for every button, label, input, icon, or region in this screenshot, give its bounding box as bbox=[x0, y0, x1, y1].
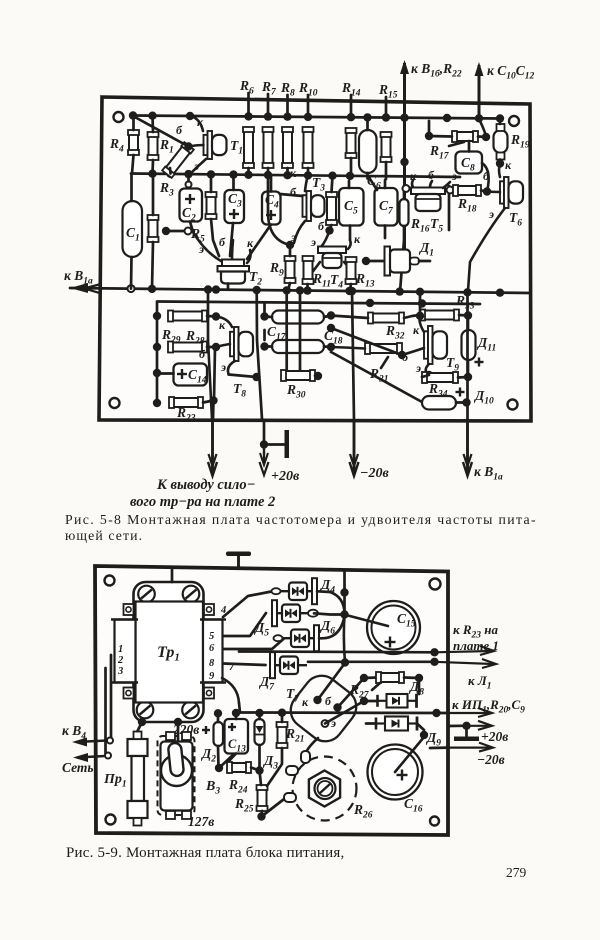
mounting hole top-right bbox=[509, 116, 519, 126]
svg-text:э: э bbox=[198, 242, 204, 256]
diode D1 bbox=[362, 247, 430, 276]
label R34 bbox=[428, 381, 448, 400]
transformer pin numbers left bbox=[117, 644, 124, 677]
transformer Tr1 outer bbox=[134, 582, 204, 722]
svg-text:5: 5 bbox=[209, 631, 214, 642]
label C13 bbox=[228, 737, 246, 755]
label T1 + pins bbox=[176, 115, 243, 173]
transistor T8 bbox=[216, 317, 253, 375]
wire bus3 k IP1 bbox=[240, 709, 448, 718]
transistor T3 bbox=[280, 175, 325, 243]
resistor R15 body bbox=[381, 132, 392, 179]
svg-text:б: б bbox=[402, 350, 409, 364]
mounting hole bottom-right bbox=[508, 400, 518, 410]
label T3 + pins bbox=[290, 166, 325, 244]
label R11 bbox=[312, 271, 331, 290]
wire base column T8 bbox=[214, 348, 215, 400]
label R13 bbox=[355, 271, 375, 290]
diode D2 bbox=[202, 709, 223, 768]
svg-text:б: б bbox=[219, 235, 226, 249]
wire K vyvodu vertical bbox=[208, 290, 212, 420]
svg-text:вого тр−ра на плате 2: вого тр−ра на плате 2 bbox=[130, 494, 275, 510]
transistor T7 pins bbox=[302, 694, 342, 730]
transistor T2 bbox=[193, 232, 251, 289]
svg-text:к: к bbox=[505, 158, 512, 172]
label R7 + wire bbox=[261, 79, 277, 117]
wire e T7 diag bbox=[325, 701, 364, 724]
resistor R14 body bbox=[346, 128, 357, 178]
wire C5 to T4 collector bbox=[348, 240, 351, 249]
resistor R17 bbox=[425, 121, 490, 146]
wire lower frame line bbox=[158, 299, 480, 308]
label 127v bbox=[188, 814, 214, 829]
capacitor C13 bbox=[225, 709, 249, 762]
wire pin9 curve bbox=[222, 678, 240, 713]
label V3 bbox=[205, 779, 220, 797]
capacitor C14 bbox=[157, 364, 207, 386]
resistor R mid unlabeled bbox=[206, 175, 220, 256]
node k R23 arrow bbox=[435, 622, 499, 655]
svg-text:к: к bbox=[219, 318, 226, 332]
label Pr1 bbox=[103, 772, 127, 790]
svg-text:−20в: −20в bbox=[477, 752, 505, 767]
node k V1b,R22 arrow up bbox=[400, 60, 462, 250]
wire top rail bbox=[129, 111, 504, 122]
label C16 bbox=[404, 796, 423, 815]
resistor R11 bbox=[303, 256, 314, 291]
label 220v bbox=[172, 718, 199, 740]
wire D2-C13 link bbox=[219, 754, 234, 768]
label R24 bbox=[228, 777, 248, 796]
label D11 bbox=[475, 335, 497, 367]
node k C10 C12 arrow up bbox=[475, 62, 535, 136]
label R26 bbox=[353, 802, 373, 821]
svg-text:б: б bbox=[428, 168, 435, 182]
wire emitter T8 to +20v line bbox=[229, 373, 261, 381]
mounting hole 2 top-left bbox=[105, 576, 115, 586]
switch V3 body bbox=[161, 732, 193, 819]
label D10 bbox=[456, 388, 494, 407]
svg-text:к: к bbox=[302, 695, 309, 709]
resistor R29 bbox=[168, 311, 220, 322]
label R23 bbox=[176, 405, 196, 424]
resistor R24 bbox=[215, 762, 264, 775]
node -20v arrow bbox=[350, 421, 390, 481]
capacitor C5 bbox=[339, 181, 364, 240]
label R15 + wire bbox=[378, 82, 398, 118]
resistor R5 bbox=[162, 226, 205, 245]
label D8 bbox=[408, 679, 424, 698]
diode D3 bbox=[255, 709, 265, 771]
page number 279 bbox=[506, 865, 527, 880]
wire transformer top feed bbox=[171, 569, 174, 582]
node k V1a bottom arrow bbox=[463, 421, 503, 483]
transformer screw BL bbox=[137, 702, 154, 719]
wire T7 emitter down bbox=[306, 738, 318, 752]
transformer screw TL bbox=[138, 586, 155, 603]
wire T5 emitter column bbox=[447, 186, 454, 230]
label R17 bbox=[429, 143, 450, 162]
wire D4 out bbox=[317, 588, 349, 613]
wire k V1a column bbox=[466, 293, 469, 421]
label R9 bbox=[269, 260, 284, 279]
diode D10 bbox=[422, 396, 471, 410]
svg-text:б: б bbox=[318, 219, 325, 233]
node k IP1 arrow bbox=[448, 697, 525, 717]
wire b T6 from C8 bbox=[482, 163, 489, 192]
switch V3 dashed bbox=[158, 736, 195, 815]
svg-text:к: к bbox=[290, 166, 297, 180]
wire pin5 to D5 bbox=[223, 613, 266, 636]
capacitor C1 bbox=[123, 174, 143, 289]
wire rectifier column bbox=[341, 570, 349, 667]
label R14 + wire bbox=[341, 80, 361, 117]
label R18 bbox=[457, 196, 477, 215]
label R25 bbox=[234, 796, 254, 815]
svg-text:б: б bbox=[325, 694, 332, 708]
diode D6 bbox=[274, 625, 320, 651]
caption fig 5-8 line 1 bbox=[65, 512, 537, 527]
svg-text:э: э bbox=[488, 207, 494, 221]
board outline plate 2 bbox=[95, 566, 448, 835]
resistor R2 unlabeled bbox=[148, 174, 159, 289]
transformer screw BR bbox=[182, 702, 199, 719]
wire T2-T4 link bbox=[268, 176, 294, 249]
label R21 bbox=[285, 726, 305, 745]
resistor R21 bbox=[267, 713, 288, 786]
capacitor C18 bbox=[260, 330, 335, 353]
resistor R6 body bbox=[243, 127, 254, 176]
label R28 bbox=[185, 328, 205, 347]
wire T7 base diag bbox=[338, 674, 369, 708]
label R33 bbox=[455, 293, 475, 312]
transistor T4 bbox=[308, 219, 361, 291]
fuse Pr1 bbox=[128, 718, 148, 826]
label R30 bbox=[286, 382, 306, 401]
svg-text:э: э bbox=[415, 361, 421, 375]
svg-text:к: к bbox=[354, 232, 361, 246]
node -20v right bbox=[430, 743, 505, 767]
label D4 bbox=[319, 577, 335, 596]
wire R23 junction down bbox=[212, 401, 215, 420]
svg-text:127в: 127в bbox=[188, 814, 214, 829]
resistor R9 bbox=[285, 245, 296, 290]
label R16 bbox=[410, 216, 430, 235]
wire pin8 bus bbox=[223, 664, 266, 666]
caption K vyvodu bbox=[130, 477, 275, 510]
resistor R27 bbox=[349, 672, 423, 701]
label R10 + wire bbox=[298, 80, 318, 117]
potentiometer R26 nut bbox=[309, 771, 340, 807]
diode D8 bbox=[360, 694, 417, 708]
svg-text:ющей сети.: ющей сети. bbox=[65, 528, 143, 543]
wire T7 collector diag bbox=[318, 663, 346, 700]
svg-text:к: к bbox=[197, 115, 204, 129]
resistor R12 unlabeled bbox=[321, 176, 337, 247]
capacitor C3 bbox=[225, 176, 245, 256]
wire mid vertical x300 bbox=[299, 291, 302, 371]
label T9 + pins bbox=[402, 323, 459, 375]
wire net to V4 bbox=[106, 655, 112, 756]
label C4 bbox=[265, 192, 279, 211]
node K vyvodu arrow bbox=[208, 420, 217, 476]
label T5 + pins bbox=[410, 168, 457, 235]
caption fig 5-9 bbox=[66, 845, 344, 861]
wire k V1b column bbox=[400, 118, 408, 185]
transformer core bbox=[136, 602, 204, 703]
label Tr1 bbox=[157, 644, 180, 664]
board outline plate 1 bbox=[99, 97, 531, 421]
label C18 bbox=[324, 328, 343, 347]
svg-text:−20в: −20в bbox=[360, 466, 389, 481]
transistor T7 body bbox=[283, 668, 363, 748]
mounting hole top-left bbox=[114, 112, 124, 122]
mounting hole bottom-left bbox=[110, 398, 120, 408]
diode D5 bbox=[272, 600, 318, 626]
wire left bus lower bbox=[153, 302, 161, 408]
label R29 bbox=[161, 327, 181, 346]
svg-text:8: 8 bbox=[209, 658, 215, 669]
capacitor C16 bbox=[368, 731, 429, 800]
svg-text:э: э bbox=[220, 360, 226, 374]
label T7 bbox=[286, 686, 300, 705]
transistor T6 bbox=[468, 164, 523, 292]
svg-text:К выводу сило−: К выводу сило− bbox=[156, 477, 255, 493]
label D5 bbox=[253, 620, 269, 639]
label C17 bbox=[267, 324, 287, 343]
transformer tab bottom-left bbox=[124, 688, 134, 699]
resistor R31 bbox=[331, 343, 402, 354]
node Set arrow bbox=[62, 753, 111, 776]
label C2 bbox=[182, 205, 196, 224]
resistor R10 body bbox=[303, 127, 314, 177]
label +20v top bbox=[271, 469, 300, 484]
svg-text:3: 3 bbox=[117, 666, 123, 677]
svg-text:6: 6 bbox=[209, 643, 215, 654]
wire middle rail bbox=[131, 170, 460, 181]
potentiometer R26 dashed bbox=[293, 757, 357, 821]
wire D6 out bbox=[319, 610, 349, 638]
resistor R18 bbox=[453, 185, 491, 196]
terminal bar above board bbox=[226, 552, 251, 652]
transformer pin numbers right bbox=[209, 605, 235, 682]
label T6 + pins bbox=[483, 158, 522, 229]
label R8 + wire bbox=[280, 80, 295, 117]
svg-text:э: э bbox=[310, 235, 316, 249]
wire pin6 to D6 bbox=[223, 639, 284, 650]
wire D5 out bbox=[314, 613, 345, 614]
label C14 bbox=[188, 367, 207, 386]
diode D4 bbox=[272, 578, 318, 604]
capacitor C6 bbox=[359, 118, 377, 179]
svg-text:б: б bbox=[176, 123, 183, 137]
label R4 bbox=[109, 136, 124, 155]
transistor T9 bbox=[398, 293, 447, 379]
svg-text:к: к bbox=[247, 236, 254, 250]
wire diag C18 to T9 base bbox=[327, 324, 402, 355]
mounting hole 2 bottom-left bbox=[106, 815, 116, 825]
transformer tab top-left bbox=[124, 604, 134, 615]
label C5 bbox=[344, 198, 358, 217]
label D1 bbox=[418, 240, 434, 259]
label R31 bbox=[369, 357, 389, 385]
label T2 + pins bbox=[198, 235, 262, 288]
node +20v bottom bbox=[260, 420, 290, 475]
capacitor C2 bbox=[180, 175, 203, 232]
capacitor C15 bbox=[346, 601, 420, 654]
node k L1 arrow bbox=[435, 659, 497, 692]
potentiometer R26 lugs bbox=[284, 751, 310, 802]
transistor T5 bbox=[411, 180, 450, 211]
resistor R30 bbox=[281, 291, 322, 382]
label D9 bbox=[425, 730, 441, 749]
svg-text:Сеть: Сеть bbox=[62, 760, 94, 775]
resistor R16 bbox=[400, 185, 410, 292]
mounting hole 2 bottom-right bbox=[430, 817, 439, 826]
label D2 bbox=[200, 746, 216, 765]
label R1 bbox=[159, 137, 174, 156]
resistor R13 bbox=[346, 257, 357, 291]
node k V4 arrow bbox=[62, 723, 113, 747]
label T8 + pins bbox=[199, 318, 246, 400]
label D7 bbox=[258, 674, 275, 693]
wire bus2 bbox=[308, 658, 439, 666]
svg-text:э: э bbox=[193, 159, 199, 173]
svg-text:2: 2 bbox=[117, 655, 124, 666]
svg-text:б: б bbox=[290, 185, 297, 199]
wire R27 to D8 bbox=[418, 678, 421, 694]
capacitor C17 bbox=[260, 303, 335, 324]
svg-text:279: 279 bbox=[506, 865, 527, 880]
resistor R7 body bbox=[263, 127, 274, 176]
wire pin4 to D4 bbox=[223, 591, 274, 617]
transformer right coil bbox=[200, 620, 226, 683]
label C3 bbox=[228, 191, 242, 210]
diode D9 bbox=[366, 717, 424, 731]
label D3 bbox=[262, 753, 278, 772]
svg-text:9: 9 bbox=[209, 671, 215, 682]
wire +20v vertical bbox=[257, 290, 262, 419]
label C7 bbox=[379, 198, 394, 217]
svg-text:б: б bbox=[199, 347, 206, 361]
resistor R19 bbox=[494, 119, 508, 168]
resistor R34 bbox=[422, 372, 468, 383]
transformer screw TR bbox=[183, 586, 200, 603]
diode D11 bbox=[462, 316, 476, 382]
wire R25 to R26 bbox=[262, 796, 289, 817]
capacitor C8 bbox=[456, 141, 483, 174]
svg-text:Рис. 5-8 Монтажная плата част: Рис. 5-8 Монтажная плата частотомера и у… bbox=[65, 512, 537, 527]
resistor R28 bbox=[168, 342, 220, 353]
capacitor C7 bbox=[375, 180, 398, 238]
transformer tab bottom-right bbox=[204, 688, 214, 699]
label C8 bbox=[461, 155, 475, 174]
svg-text:1: 1 bbox=[118, 644, 123, 655]
resistor R4 bbox=[128, 117, 139, 174]
svg-text:Рис. 5-9. Монтажная плата блок: Рис. 5-9. Монтажная плата блока питания, bbox=[66, 845, 344, 861]
wire bus1 k R23 bbox=[239, 648, 439, 656]
svg-text:плате 1: плате 1 bbox=[453, 638, 499, 653]
caption fig 5-8 line 2 bbox=[65, 528, 143, 543]
transistor T1 bbox=[189, 116, 227, 174]
label C6 bbox=[367, 173, 381, 192]
svg-text:+20в: +20в bbox=[481, 729, 508, 744]
label R32 bbox=[385, 323, 405, 342]
label R3 bbox=[159, 180, 174, 199]
label C1 bbox=[126, 225, 140, 244]
svg-text:к: к bbox=[413, 323, 420, 337]
wire diag to D10 bbox=[331, 352, 422, 402]
svg-text:к: к bbox=[410, 169, 417, 183]
diode D7 bbox=[270, 652, 307, 678]
resistor R3 diagonal bbox=[133, 116, 194, 178]
label R19 bbox=[510, 132, 530, 151]
mounting hole 2 top-right bbox=[430, 579, 441, 590]
label R6 + wire bbox=[239, 78, 254, 117]
transformer tab top-right bbox=[204, 604, 214, 615]
resistor R8 body bbox=[282, 127, 293, 177]
wire bottom rail / node k V1a left bbox=[70, 283, 530, 297]
transformer left coil bbox=[111, 620, 138, 683]
wire C6-C7 diagonal bbox=[368, 175, 378, 190]
label k V1a left bbox=[64, 268, 93, 287]
resistor R1 bbox=[148, 116, 159, 174]
node +20v right bbox=[448, 721, 508, 744]
resistor R23 bbox=[169, 396, 218, 408]
resistor R33 bbox=[404, 310, 472, 321]
resistor R32 bbox=[331, 313, 404, 324]
label D6 bbox=[319, 618, 335, 637]
svg-text:+20в: +20в bbox=[271, 469, 300, 484]
wire -20v column lower bbox=[352, 291, 354, 420]
capacitor C4 bbox=[247, 176, 281, 259]
label C15 bbox=[397, 611, 416, 630]
resistor R25 bbox=[257, 771, 268, 821]
